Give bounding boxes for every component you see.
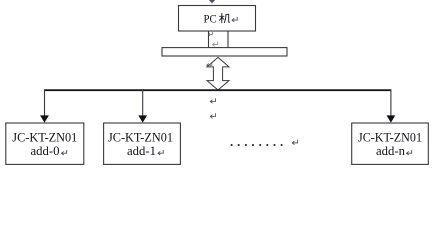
bus line [44,89,391,91]
dots ellipsis [231,144,283,146]
return-mark below bus 2 [210,113,215,118]
return-mark above bar [213,41,218,46]
box add-0 [6,123,84,164]
return-mark near left leg [208,32,212,36]
svg-text:PC: PC [204,12,217,26]
cursor arrowhead top [209,0,215,4]
svg-text:add-n: add-n [376,143,405,158]
box PC [179,6,256,32]
arrowhead middle [138,115,147,122]
drop wire right [390,90,392,116]
wire PC-left leg [208,32,210,48]
arrowhead right [387,115,396,122]
label add-1 [108,129,173,158]
return-mark below bus 1 [210,98,215,103]
svg-text:add-0: add-0 [31,143,60,158]
box add-n [352,123,429,164]
label add-0 [12,129,77,158]
arrowhead left [40,115,49,122]
drop wire left [44,90,46,116]
double arrow [207,57,229,90]
return-mark at double arrow [207,62,212,67]
label PC机 [204,12,238,26]
hub bar [162,48,287,56]
label add-n [358,129,422,158]
return-mark after dots [292,140,297,145]
drop wire middle [142,90,144,116]
wire PC-right leg [227,32,229,48]
box add-1 [104,123,181,164]
svg-text:add-1: add-1 [127,143,156,158]
